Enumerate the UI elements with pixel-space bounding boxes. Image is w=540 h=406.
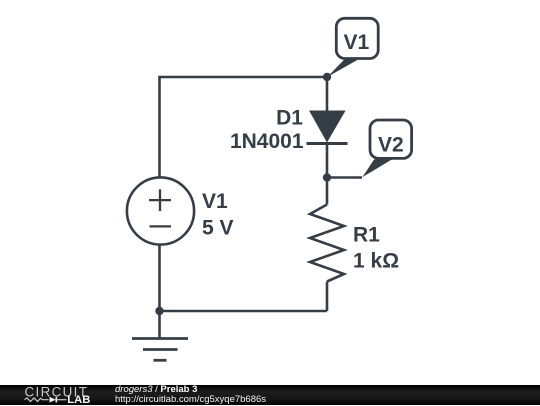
label D1 — [230, 107, 304, 154]
flag V1 — [327, 18, 378, 77]
svg-text:V1: V1 — [202, 190, 228, 213]
wire left upper — [158, 76, 161, 178]
resistor R1 — [310, 205, 344, 282]
wire stub node V2 to flag — [327, 176, 362, 179]
node dot top (net V1) — [323, 73, 331, 81]
svg-text:R1: R1 — [353, 224, 380, 247]
svg-text:V2: V2 — [378, 133, 404, 156]
label R1 — [353, 224, 399, 273]
svg-text:D1: D1 — [276, 107, 303, 130]
footer line 2 — [115, 395, 266, 405]
svg-text:LAB: LAB — [67, 394, 90, 406]
node dot ground — [155, 307, 163, 315]
wire right upper — [326, 77, 329, 111]
footer bar — [0, 385, 540, 405]
label V1 value — [202, 190, 234, 240]
svg-text:5 V: 5 V — [202, 216, 234, 239]
flag V2 — [362, 120, 411, 177]
wire left lower — [158, 245, 161, 312]
node dot middle (net V2) — [323, 173, 331, 181]
svg-text:V1: V1 — [344, 31, 370, 54]
ground — [132, 311, 188, 360]
voltage source V1 — [127, 177, 194, 244]
svg-text:1 kΩ: 1 kΩ — [353, 250, 399, 273]
svg-text:1N4001: 1N4001 — [230, 130, 304, 153]
wire top (node V1 net) — [160, 76, 328, 79]
wire diode cathode to node V2 — [326, 144, 329, 205]
CircuitLab logo — [0, 382, 110, 406]
diode D1 — [307, 111, 348, 144]
wire bottom — [160, 310, 328, 313]
footer line 1 — [115, 385, 197, 395]
wire resistor bottom lead — [326, 282, 329, 312]
